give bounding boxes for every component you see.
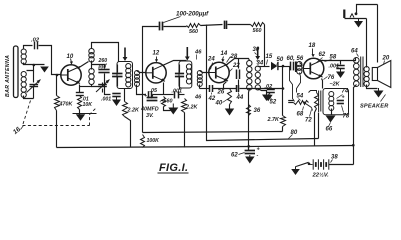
svg-text:3V.: 3V. (146, 113, 154, 119)
leader 20 (384, 61, 385, 65)
node base bias junction (56, 74, 59, 77)
leader 66 (329, 123, 331, 127)
capacitor 100-200uuf (159, 22, 161, 31)
capacitor .05 emitter bypass (148, 91, 150, 98)
wire winding out to rail B (318, 113, 320, 139)
svg-text:14: 14 (221, 51, 228, 57)
leader 28 (227, 57, 231, 63)
wire IF2 cap top (179, 65, 181, 73)
wire emitter to osc coil (80, 86, 92, 88)
wire OT secondary top to jack (366, 19, 368, 68)
leader 16 (21, 126, 24, 130)
transistor 12 first IF amp (146, 63, 166, 83)
node antenna tap (33, 64, 36, 67)
wire choke bottom (331, 109, 333, 115)
svg-text:100-200μμf: 100-200μμf (176, 11, 209, 18)
wire battery to rail (329, 164, 354, 166)
resistor 40 bias (228, 89, 232, 105)
leader 22 (229, 69, 233, 73)
IF3 primary winding (247, 61, 252, 66)
leader 100-200uuf (164, 17, 181, 23)
leader 78 (342, 106, 344, 113)
wire IF3 secondary top to diode (258, 66, 270, 68)
resistor 470K base bias (55, 96, 60, 111)
dashed gang line horizontal (23, 125, 90, 127)
IF transformer 1 can (117, 62, 133, 89)
svg-text:560: 560 (253, 28, 262, 34)
wire 56 bottom down (297, 73, 301, 93)
svg-text:54: 54 (297, 94, 304, 100)
svg-text:18: 18 (309, 43, 316, 49)
wire osc tap to padder (92, 65, 105, 69)
ground output box (326, 116, 336, 123)
wire IF3 cap stub bottom (238, 80, 240, 89)
svg-text:72: 72 (305, 118, 312, 124)
svg-text:+: + (342, 95, 345, 101)
arrow variable cap 16b (96, 80, 110, 93)
node detector out (282, 65, 285, 68)
wire ground bus C (57, 146, 354, 148)
svg-text:60,: 60, (287, 56, 296, 62)
resistor 2.7K (281, 116, 286, 127)
svg-text:.02: .02 (31, 38, 40, 44)
wire antenna tuned circuit bottom (24, 96, 34, 99)
wire emitter Q12 down (163, 83, 165, 95)
resistor 68 bias (315, 93, 319, 109)
wire IF1 secondary to base Q12 (137, 71, 146, 73)
wire 2.2K bottom to bus (125, 117, 131, 148)
capacitor 62 filter (245, 150, 255, 152)
wire jack to OT (345, 18, 367, 20)
speaker 20 (372, 68, 377, 81)
capacitor 40MFD electrolytic (147, 97, 158, 99)
driver secondary winding 56 (297, 62, 302, 67)
svg-text:560: 560 (189, 29, 198, 35)
wire IF1 cap bottom (117, 77, 119, 87)
ground battery switch (295, 166, 297, 169)
wire osc coil top to IF1 (92, 43, 119, 62)
tuning slug IF3 (257, 47, 259, 57)
svg-text:.05: .05 (150, 88, 158, 94)
wire IF3 primary bottom (249, 89, 250, 151)
svg-text:SPEAKER: SPEAKER (360, 104, 388, 110)
wire IF2 secondary to base Q14 (200, 71, 209, 73)
wire antenna coil bottom to ground (24, 63, 45, 65)
svg-text:74: 74 (342, 89, 349, 95)
svg-text:78: 78 (343, 114, 350, 120)
wire 470K top to base (56, 75, 58, 96)
ground jack (358, 18, 360, 21)
IF1 primary winding (126, 64, 131, 69)
wire jack top rail (357, 5, 378, 14)
antenna primary coil L1 (21, 49, 26, 54)
svg-text:560: 560 (164, 99, 173, 105)
leader 62 filter (239, 153, 245, 155)
ferrite bar antenna core (14, 46, 19, 98)
wire wiper down (312, 108, 313, 111)
svg-text:40: 40 (215, 101, 223, 107)
wire speaker top from jack (377, 5, 379, 63)
wire 560 bottom (164, 107, 171, 111)
choke winding 66 (329, 92, 334, 97)
driver transformer core lines (320, 91, 322, 112)
capacitor .02 coupling (34, 42, 36, 50)
leader 38 (331, 160, 333, 163)
wire IF2 cap bottom (179, 77, 181, 90)
resistor 560 top first (187, 24, 201, 28)
output transformer core (360, 57, 362, 88)
svg-text:BAR ANTENNA: BAR ANTENNA (5, 55, 11, 97)
wire .001 stub (340, 61, 342, 65)
svg-text:46: 46 (194, 95, 202, 101)
ground antenna coil (40, 67, 49, 73)
leader 14 (223, 57, 224, 60)
node det filter (282, 87, 285, 90)
svg-text:66: 66 (326, 127, 333, 133)
jack switch contact (350, 14, 354, 18)
wire padder bottom (105, 74, 111, 95)
IF2 secondary winding (197, 71, 202, 76)
leader 46 upper (196, 55, 198, 60)
wire emitter net a (153, 94, 163, 96)
wire tuning cap top lead (33, 71, 35, 83)
output transformer primary (354, 58, 360, 64)
capacitor 22 IF3 tank (236, 70, 238, 80)
antenna secondary coil L2 (21, 72, 26, 77)
wire det bias b (213, 88, 237, 90)
output transformer secondary (364, 67, 369, 72)
resistor 2.2K first (123, 102, 128, 117)
leader 30 (255, 53, 257, 55)
svg-text:36: 36 (254, 108, 261, 114)
node switch contact (308, 163, 311, 166)
wire collector Q12 up (163, 61, 187, 66)
svg-text:68: 68 (297, 112, 304, 118)
leader 54 (299, 99, 301, 101)
leader 24 (211, 63, 213, 70)
resistor 2.2K second (182, 99, 187, 113)
wire .02 to gnd (269, 93, 271, 95)
svg-text:76: 76 (328, 75, 335, 81)
leader 42 (211, 93, 213, 95)
svg-text:2.7K: 2.7K (267, 117, 280, 123)
leader arrowhead 18 (312, 54, 315, 57)
svg-text:64: 64 (351, 49, 358, 55)
wire IF3 secondary bottom gnd (258, 89, 267, 95)
capacitor 42 (209, 85, 211, 92)
wire collector Q14 to IF3 (226, 59, 250, 66)
wire tap to tuned coil (27, 65, 34, 71)
svg-text:2.2K: 2.2K (127, 108, 140, 114)
dashed gang line to osc cap (90, 109, 96, 126)
svg-text:10: 10 (67, 54, 74, 60)
svg-text:470K: 470K (59, 102, 74, 108)
transistor 14 second IF amp (209, 62, 229, 82)
wire osc varcap bottom (102, 89, 104, 93)
svg-text:62: 62 (319, 52, 326, 58)
wire emitter net c (179, 94, 185, 96)
wire rail seg2 (164, 26, 187, 28)
capacitor volume isolating (288, 100, 293, 102)
wire rail seg3 (201, 25, 223, 26)
wire volume node down (282, 67, 284, 116)
node battery rail junction (352, 144, 355, 147)
capacitor 44 (236, 85, 238, 92)
leader 76 (324, 77, 328, 80)
dashed gang line from antenna cap (23, 101, 31, 126)
svg-text:10K: 10K (83, 102, 94, 108)
capacitor neutralizing top (224, 21, 226, 29)
svg-text:-: - (160, 99, 162, 105)
node rail C filter junction (247, 145, 250, 148)
ground det filter (264, 95, 273, 102)
leader 34 (257, 61, 259, 63)
svg-text:FIG.I.: FIG.I. (159, 162, 188, 174)
wire AVC vertical (142, 63, 144, 133)
IF2 primary winding (186, 64, 191, 69)
leader 74 (337, 95, 343, 99)
wire supply rail B (207, 25, 319, 141)
svg-text:12: 12 (153, 51, 160, 57)
wire 40MFD stem (152, 95, 154, 97)
svg-text:~2K: ~2K (330, 82, 341, 88)
ground IF1 emitter (172, 104, 174, 108)
wire 470K bottom to bus (56, 111, 58, 148)
leader speaker (381, 95, 386, 102)
wire 10K to ground bus (79, 110, 81, 115)
leader arrowhead 12 (155, 59, 158, 62)
wire emitter Q10 down (79, 85, 81, 93)
ground speaker (378, 88, 380, 91)
oscillator coil lower (89, 69, 94, 74)
svg-text:22½V.: 22½V. (312, 172, 330, 179)
volume control 54 (294, 101, 309, 105)
svg-text:22: 22 (232, 63, 240, 69)
wire emitter Q14 down (224, 82, 227, 89)
IF1 secondary winding (135, 71, 140, 76)
svg-text:44: 44 (236, 95, 244, 101)
tuning slug IF2 (186, 47, 188, 57)
capacitor .001 output (336, 65, 344, 67)
leader arrowhead 10 (70, 61, 73, 64)
resistor 560 emitter (162, 97, 166, 107)
svg-text:56: 56 (297, 56, 304, 62)
leader 68 (303, 107, 304, 111)
wire tuning cap bottom lead (33, 87, 35, 99)
svg-text:26: 26 (217, 90, 225, 96)
leader 50 (277, 63, 279, 65)
svg-text:100K: 100K (147, 138, 161, 144)
leader 15 (267, 60, 268, 65)
wire osc coil link (91, 61, 93, 70)
leader 52 (270, 98, 272, 99)
wire 56 to base Q18 (300, 63, 303, 66)
wire collector Q10 to osc coil (78, 62, 89, 69)
driver transformer core bar (295, 62, 297, 73)
svg-text:.001: .001 (172, 88, 183, 94)
resistor 560 top second (251, 23, 265, 27)
capacitor 260uuf padder (98, 69, 109, 71)
svg-text:50: 50 (277, 57, 284, 63)
svg-text:.001: .001 (101, 97, 111, 103)
capacitor .001 second (174, 91, 176, 98)
transistor 10 converter (61, 65, 81, 85)
svg-text:-: - (257, 153, 259, 159)
capacitor .001 osc bypass (112, 93, 120, 95)
transistor 18 audio output (303, 58, 324, 79)
diode 50 detector (271, 62, 277, 70)
leader 40 (223, 99, 229, 103)
variable capacitor 16a tuning (30, 84, 39, 86)
wire AVC rail A (143, 132, 283, 133)
node jack tip (355, 12, 358, 15)
battery 38 cells (312, 159, 314, 169)
leader 62 top (317, 58, 323, 63)
ground converter emitter (76, 114, 85, 121)
svg-text:μμf: μμf (98, 64, 108, 70)
leader 80 (289, 135, 293, 139)
arrow variable cap 16a (27, 80, 41, 93)
wire diode to volume node (279, 66, 291, 68)
variable capacitor 16b oscillator (98, 84, 107, 86)
wire rail drop to detector (264, 25, 266, 67)
wire IF3 cap stub top (238, 59, 240, 69)
output stage box (323, 89, 349, 115)
capacitor IF2 tank (175, 73, 184, 75)
wire collector Q18 to OT (321, 58, 356, 61)
ground osc bypass (116, 97, 118, 100)
IF transformer 2 can (179, 61, 192, 88)
wire r68 top (309, 91, 317, 93)
wire filter cap 62 stub (248, 147, 250, 151)
capacitor .01 emitter (76, 92, 84, 94)
wire det bias a (200, 88, 210, 90)
switch 70 (296, 162, 309, 166)
leader arrowhead 14 (221, 59, 224, 62)
wire det bias c (240, 88, 283, 90)
wire 2.2K-2 bottom to bus (184, 113, 186, 148)
resistor 100K (141, 135, 145, 148)
wire 2.7K to rail (282, 127, 284, 132)
svg-text:24: 24 (207, 57, 215, 63)
svg-text:20: 20 (382, 56, 390, 62)
leader 58 (325, 60, 332, 62)
wire emitter Q18 down (322, 79, 323, 89)
wire OT secondary bottom (367, 85, 378, 89)
capacitor .02 detector filter (267, 89, 275, 91)
wire rail seg4 (228, 24, 251, 26)
leader 72 (310, 110, 312, 117)
wire 2.2K top (124, 89, 126, 102)
wire cap60 left down (290, 67, 295, 102)
svg-text:46: 46 (194, 50, 202, 56)
ground IF3 secondary (262, 95, 271, 102)
capacitor 60 coupling (290, 62, 292, 71)
IF3 secondary winding (255, 66, 260, 71)
svg-text:.02: .02 (265, 84, 274, 90)
earphone jack plug bar (343, 10, 345, 19)
wire emitter ground stub (73, 113, 97, 115)
wire IF1 cap top (117, 65, 119, 73)
wire switch to battery (309, 164, 313, 166)
oscillator coil upper 42 (89, 49, 94, 54)
tuning slug IF1 (124, 48, 126, 58)
wire IF1 secondary bottom (137, 85, 146, 95)
capacitor 78 inside box (337, 100, 344, 102)
leader 10 (71, 59, 72, 63)
svg-text:15: 15 (266, 54, 273, 60)
svg-text:62: 62 (231, 153, 238, 159)
wire osc varcap top (92, 83, 103, 87)
wire IF2 secondary bottom (199, 85, 201, 89)
wire 40 to ground (229, 105, 231, 109)
svg-text:2.2K: 2.2K (185, 105, 198, 111)
wire .02 det stub (270, 89, 272, 90)
ground filter 62 (249, 155, 251, 157)
svg-text:30: 30 (253, 47, 260, 53)
wire r68 bottom to rail (315, 109, 317, 146)
leader 64 (357, 54, 359, 57)
wire antenna coil top to C .02 (24, 46, 33, 50)
resistor 36 (247, 105, 251, 116)
wire emitter net b (163, 94, 174, 96)
ground .001 output (340, 69, 342, 72)
wire C .02 to base of Q10 (39, 46, 61, 75)
resistor 10K emitter (78, 96, 82, 110)
wire OT primary bottom to battery (354, 85, 357, 165)
ground resistor 40 (225, 109, 234, 116)
capacitor IF1 tank (112, 73, 122, 75)
leader 44 (238, 93, 240, 95)
leader 18 (312, 49, 314, 55)
leader 12 (156, 57, 158, 60)
wiper arrow volume 54 (303, 102, 312, 108)
svg-text:52: 52 (270, 100, 277, 106)
wire top rail (143, 27, 159, 63)
